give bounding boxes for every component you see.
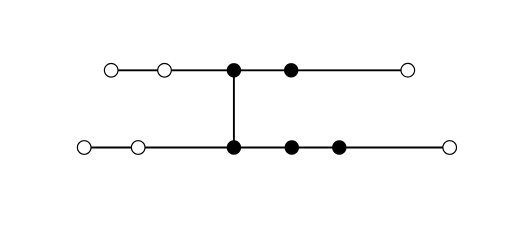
- junction J5: [332, 140, 346, 154]
- open node B1: [77, 141, 91, 155]
- junction J3: [227, 140, 241, 154]
- open node T3: [401, 63, 415, 77]
- wire top rail: [111, 69, 408, 71]
- wire bottom rail: [84, 147, 450, 149]
- junction J2: [284, 63, 298, 77]
- junction J1: [227, 63, 241, 77]
- open node B3: [443, 141, 457, 155]
- open node B2: [131, 141, 145, 155]
- junction J4: [285, 140, 299, 154]
- open node T2: [158, 64, 172, 78]
- open node T1: [104, 64, 118, 78]
- wire vertical link: [233, 70, 235, 147]
